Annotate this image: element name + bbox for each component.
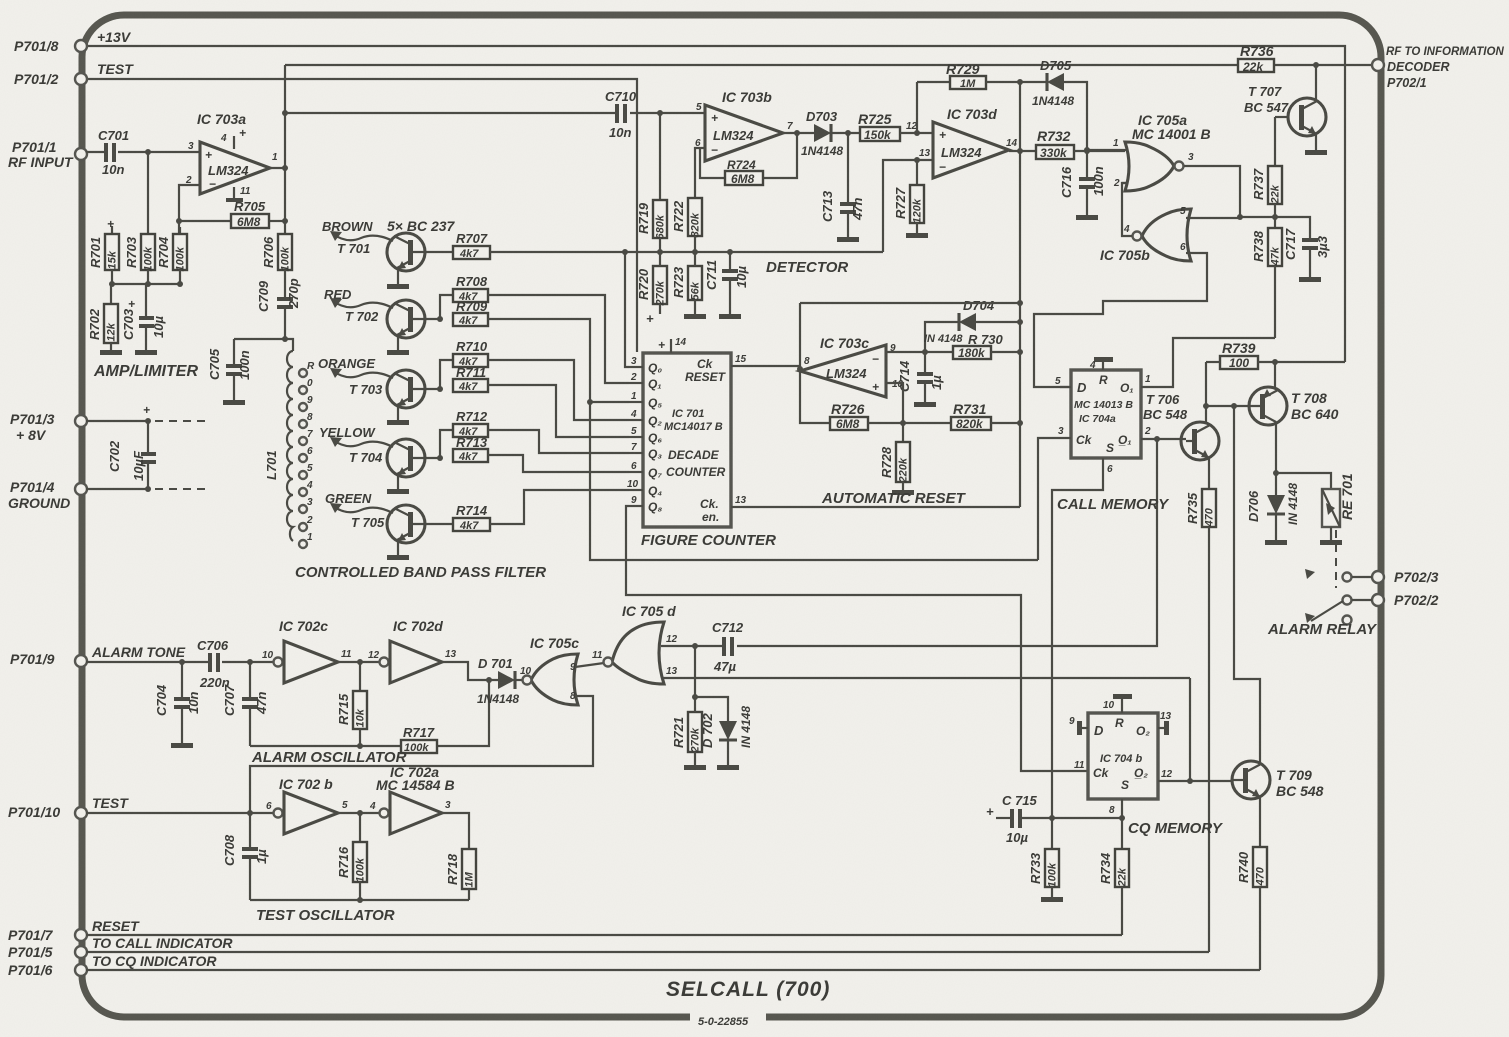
wire IC705b input 6 xyxy=(1034,242,1207,387)
wire IC703a output node xyxy=(270,65,288,224)
pin 6 stub of IC704a xyxy=(1103,458,1113,475)
wire RESET line xyxy=(86,918,1122,935)
label 5x BC237 xyxy=(387,218,456,234)
transistor T705 xyxy=(351,505,430,555)
capacitor C714 xyxy=(897,352,944,407)
wire IC701 pin15 to IC703c output xyxy=(743,365,800,367)
resistor R711 xyxy=(453,365,488,393)
label GREEN with wavy wire xyxy=(325,491,393,513)
tap 0 of L701 xyxy=(299,378,313,394)
ground pin 11 of IC703a xyxy=(226,186,251,202)
wire RF input line xyxy=(86,149,200,155)
resistor R704 xyxy=(156,227,187,284)
wire IC703b output xyxy=(783,132,814,134)
inverter IC702d xyxy=(368,618,457,683)
capacitor C707 xyxy=(222,662,269,746)
resistor R735 xyxy=(1185,458,1216,952)
wire Q8 net to IC704b clock xyxy=(626,506,1088,771)
pin 11 clock stub of IC704b xyxy=(1074,760,1085,771)
wire IC705d pin13 line xyxy=(661,678,1193,784)
wire IC703d output node xyxy=(1009,148,1036,154)
resistor R715 xyxy=(336,662,367,746)
resistor R740 xyxy=(1236,797,1267,970)
ground under T702 xyxy=(387,350,409,355)
transistor T708 xyxy=(1206,387,1339,425)
wire T706 collector to R739 xyxy=(1203,362,1209,424)
capacitor C709 xyxy=(256,278,301,339)
resistor R732 xyxy=(1036,128,1125,160)
capacitor C701 xyxy=(98,128,129,177)
pin 13 stub with bar of IC704b xyxy=(1158,711,1172,735)
transistor T703 xyxy=(349,370,440,420)
wire IC705b input 5 xyxy=(1180,206,1240,218)
gap in bottom border for drawing number xyxy=(690,1008,766,1030)
capacitor C710 xyxy=(605,89,637,140)
wire O1bar down to gate nets xyxy=(1156,439,1158,644)
wire T708 emitter node xyxy=(1273,422,1279,476)
pin 3 stub of IC704a xyxy=(1038,426,1071,560)
label RED with wavy wire xyxy=(324,287,393,308)
op-amp IC703b xyxy=(695,89,793,161)
label AUTOMATIC RESET xyxy=(821,490,967,507)
label DETECTOR xyxy=(766,259,848,276)
supply pin 14 of IC701 xyxy=(658,337,687,353)
wire detector to IC703d minus input xyxy=(883,148,933,252)
resistor R721 xyxy=(671,646,706,770)
resistor R734 xyxy=(1098,818,1129,935)
wire test line xyxy=(86,795,273,816)
resistor R707 xyxy=(430,231,490,260)
wire IC705a input 1 xyxy=(1084,138,1128,153)
wire IC705d pin12 line with C712 xyxy=(661,643,1157,649)
pin numbers left of IC701 xyxy=(627,356,639,506)
relay contact to P702/3 xyxy=(1305,569,1372,582)
connector P701/2 xyxy=(14,71,87,87)
resistor R733 xyxy=(1028,818,1063,902)
IC IC704b flip-flop xyxy=(1088,713,1158,799)
capacitor C703 xyxy=(121,297,166,351)
relay coil RE701 xyxy=(1276,473,1355,545)
inverter IC702c xyxy=(262,618,352,683)
connector P701/1 xyxy=(8,139,87,170)
resistor R730 xyxy=(953,332,1020,360)
connector P701/6 xyxy=(8,962,87,978)
capacitor C708 xyxy=(222,813,269,900)
resistor R726 feedback xyxy=(797,303,1020,431)
wire C710 line xyxy=(285,110,705,116)
wire IC705c pin9 to IC705d output xyxy=(575,650,604,667)
wire detector line from R707 xyxy=(490,249,883,255)
wire T708 collector xyxy=(1274,362,1276,388)
op-amp IC703c xyxy=(800,335,904,397)
capacitor C706 xyxy=(197,638,230,690)
wire IC703d plus input node xyxy=(906,82,933,136)
ground under C703 xyxy=(135,350,157,355)
wire IC703c plus input xyxy=(886,383,906,426)
inverter IC702a xyxy=(369,764,455,834)
connector P701/4 xyxy=(8,479,87,511)
wire IC705b output to IC705a input2 xyxy=(1122,183,1132,236)
resistor R722 xyxy=(671,148,705,252)
ground under R702 xyxy=(100,350,122,355)
connector P702/3 xyxy=(1372,569,1439,585)
output labels Q0..Q8 inside IC701 xyxy=(648,361,662,514)
transistor T701 xyxy=(337,233,430,284)
diode D706 xyxy=(1246,473,1300,545)
IC IC704a MC14013B flip-flop xyxy=(1071,370,1141,458)
capacitor C712 xyxy=(712,620,744,674)
NOR gate IC705b xyxy=(1100,209,1191,263)
wire IC705a output to node xyxy=(1184,152,1275,220)
wire RF output line to P702/1 xyxy=(285,62,1372,68)
NOR gate IC705d xyxy=(604,603,678,684)
resistor R719 xyxy=(636,113,667,252)
pin 2 output of IC704a to T706 xyxy=(1141,426,1186,442)
wire alarm tone line xyxy=(86,644,273,665)
resistor R701 xyxy=(88,217,119,284)
wire R710 to counter pin 4 xyxy=(488,360,629,420)
op-amp IC703a xyxy=(185,111,278,194)
diode D701 xyxy=(477,656,532,706)
tap 4 of L701 xyxy=(299,480,313,496)
ground under T705 xyxy=(387,555,409,560)
transistor T706 xyxy=(1143,392,1219,460)
NOR gate IC705a xyxy=(1125,112,1187,191)
connector P702/1 xyxy=(1372,46,1504,90)
resistor R727 xyxy=(893,160,928,238)
resistor R712 xyxy=(437,409,488,461)
wire alarm osc bottom loop xyxy=(250,680,489,749)
wire +13V rail xyxy=(86,29,1345,362)
label AMP/LIMITER xyxy=(93,363,198,380)
wire TO CQ INDICATOR line xyxy=(86,953,1260,970)
connector P701/10 xyxy=(8,804,87,820)
diode D703 xyxy=(801,109,860,158)
resistor R705 xyxy=(179,199,285,229)
connector P701/9 xyxy=(10,651,87,667)
wire S-line of IC704a xyxy=(1052,466,1103,818)
paper grain xyxy=(0,0,1,1)
transistor T707 xyxy=(1244,65,1326,150)
label MC14001B xyxy=(1132,126,1211,142)
resistor R716 xyxy=(336,813,367,900)
connector P701/7 xyxy=(8,927,87,943)
wire ground dashed xyxy=(86,486,208,492)
wire inverter c to d xyxy=(338,659,379,665)
capacitor C717 xyxy=(1275,217,1330,282)
wire T708 base branch down to T709 collector xyxy=(1234,406,1260,762)
pin 15 of IC701 xyxy=(731,354,747,366)
resistor R710 xyxy=(437,339,488,392)
diode D702 xyxy=(695,697,753,770)
resistor R729 1M xyxy=(917,61,1046,90)
wire test osc bottom loop xyxy=(250,897,469,903)
relay contact to P702/2 xyxy=(1343,596,1373,605)
resistor R739 xyxy=(1206,340,1345,370)
wire ground bus of amp xyxy=(109,281,183,316)
resistor R713 xyxy=(453,435,488,463)
pin stubs left of IC701 xyxy=(629,367,643,506)
reset bar pin 4 of IC704a xyxy=(1089,357,1113,371)
connector P701/8 xyxy=(14,38,87,54)
wire R713 to counter pin 6 xyxy=(488,455,629,472)
capacitor C702 xyxy=(107,421,156,489)
IC IC701 MC14017B decade counter xyxy=(643,353,731,527)
resistor R702 xyxy=(87,304,118,351)
label ALARM RELAY xyxy=(1267,621,1378,638)
wire Q5 net down to H560 xyxy=(590,402,1038,560)
transistor T709 xyxy=(1232,761,1324,799)
dashed relay actuation line xyxy=(1335,530,1337,588)
transistor T702 xyxy=(345,300,440,350)
wire IC705c pin8 feedback xyxy=(250,696,593,813)
wire R709 to counter pin 1 xyxy=(488,319,629,405)
ground under T704 xyxy=(387,489,409,494)
tap 9 of L701 xyxy=(299,395,313,411)
label ORANGE with wavy wire xyxy=(318,356,393,378)
pin 12 output of IC704b to T709 xyxy=(1158,769,1233,781)
inverter IC702b xyxy=(266,776,348,834)
connector P701/5 xyxy=(8,944,87,960)
wire IC703c minus input line xyxy=(886,349,953,355)
tap 7 of L701 xyxy=(299,429,313,445)
pin 9 stub with bar of IC704b xyxy=(1069,716,1088,735)
capacitor C705 xyxy=(207,348,252,405)
resistor R706 xyxy=(261,221,292,297)
reset bar pin 10 of IC704b xyxy=(1103,694,1132,713)
relay lever xyxy=(1305,601,1352,625)
capacitor C704 xyxy=(154,662,201,748)
label CQ MEMORY xyxy=(1128,820,1224,837)
label CALL MEMORY xyxy=(1057,496,1170,513)
NOR gate IC705c xyxy=(523,635,580,705)
resistor R738 xyxy=(1251,228,1282,338)
tap 6 of L701 xyxy=(299,446,313,462)
wire Q0 drop to pin 3 xyxy=(625,252,629,367)
wire R711 to counter pin 5 xyxy=(488,385,629,437)
tap 2 of L701 xyxy=(299,515,313,531)
resistor R708 xyxy=(437,274,488,322)
pin 1 output O1 of IC704a xyxy=(1141,338,1275,387)
ground under T703 xyxy=(387,420,409,425)
resistor R728 xyxy=(879,423,914,495)
wire TO CALL INDICATOR line xyxy=(86,935,1209,952)
label TEST OSCILLATOR xyxy=(256,907,395,924)
label FIGURE COUNTER xyxy=(641,532,776,549)
ground under T701 xyxy=(387,284,409,289)
capacitor C716 xyxy=(1059,150,1106,220)
tap 8 of L701 xyxy=(299,412,313,428)
wire R712 to counter pin 7 xyxy=(488,430,629,453)
tap 1 of L701 xyxy=(299,532,313,548)
resistor R718 xyxy=(442,813,476,900)
resistor R709 xyxy=(453,299,488,327)
tap 3 of L701 xyxy=(299,497,313,513)
resistor R736 xyxy=(1238,43,1274,74)
wire +8V dashed xyxy=(86,403,208,424)
capacitor C715 xyxy=(986,793,1122,845)
capacitor C711 xyxy=(704,252,749,319)
wire node C705 L701 xyxy=(234,336,293,364)
resistor R720 xyxy=(636,252,667,326)
supply pin 4 of IC703a xyxy=(220,126,246,149)
capacitor C713 xyxy=(820,133,865,242)
connector P702/2 xyxy=(1372,592,1439,608)
tap R of L701 xyxy=(299,361,315,377)
resistor R725 xyxy=(858,111,917,142)
label CONTROLLED BAND PASS FILTER xyxy=(295,564,546,581)
pin 5 stub of IC704a xyxy=(1055,376,1071,387)
resistor R723 xyxy=(671,252,706,319)
op-amp IC703d xyxy=(933,106,1018,178)
resistor R737 xyxy=(1251,117,1282,228)
label ALARM OSCILLATOR xyxy=(251,749,407,766)
wire IC703a inverting input xyxy=(176,185,200,234)
wire TEST top xyxy=(86,61,637,352)
ground under T707 xyxy=(1305,150,1327,155)
pin 8 stub of IC704b xyxy=(1109,799,1125,821)
resistor R714 xyxy=(430,503,490,532)
wire inverter b to a xyxy=(338,810,379,816)
diode D705 xyxy=(1032,58,1087,151)
pin 13 of IC701 xyxy=(731,495,747,507)
resistor R717 xyxy=(401,725,437,754)
label YELLOW with wavy wire xyxy=(319,425,393,447)
tap 5 of L701 xyxy=(299,463,313,479)
wire IC702d output to D701 xyxy=(442,662,498,683)
wire Ck-en down line xyxy=(743,506,1020,508)
wire main reset vertical xyxy=(1017,82,1023,507)
wire IC705a input 2 xyxy=(1113,178,1128,189)
resistor R731 xyxy=(903,401,1020,431)
wire R708 to counter pin 2 xyxy=(488,295,629,383)
diode D704 xyxy=(924,298,1020,352)
resistor R703 xyxy=(124,152,155,284)
connector P701/3 xyxy=(10,411,87,443)
label BROWN with wavy wire xyxy=(322,219,393,241)
resistor R724 feedback 6M8 xyxy=(700,130,800,186)
inductor L701 xyxy=(264,351,293,541)
wire R714 to counter pin 10 xyxy=(490,490,629,524)
transistor T704 xyxy=(349,439,440,489)
